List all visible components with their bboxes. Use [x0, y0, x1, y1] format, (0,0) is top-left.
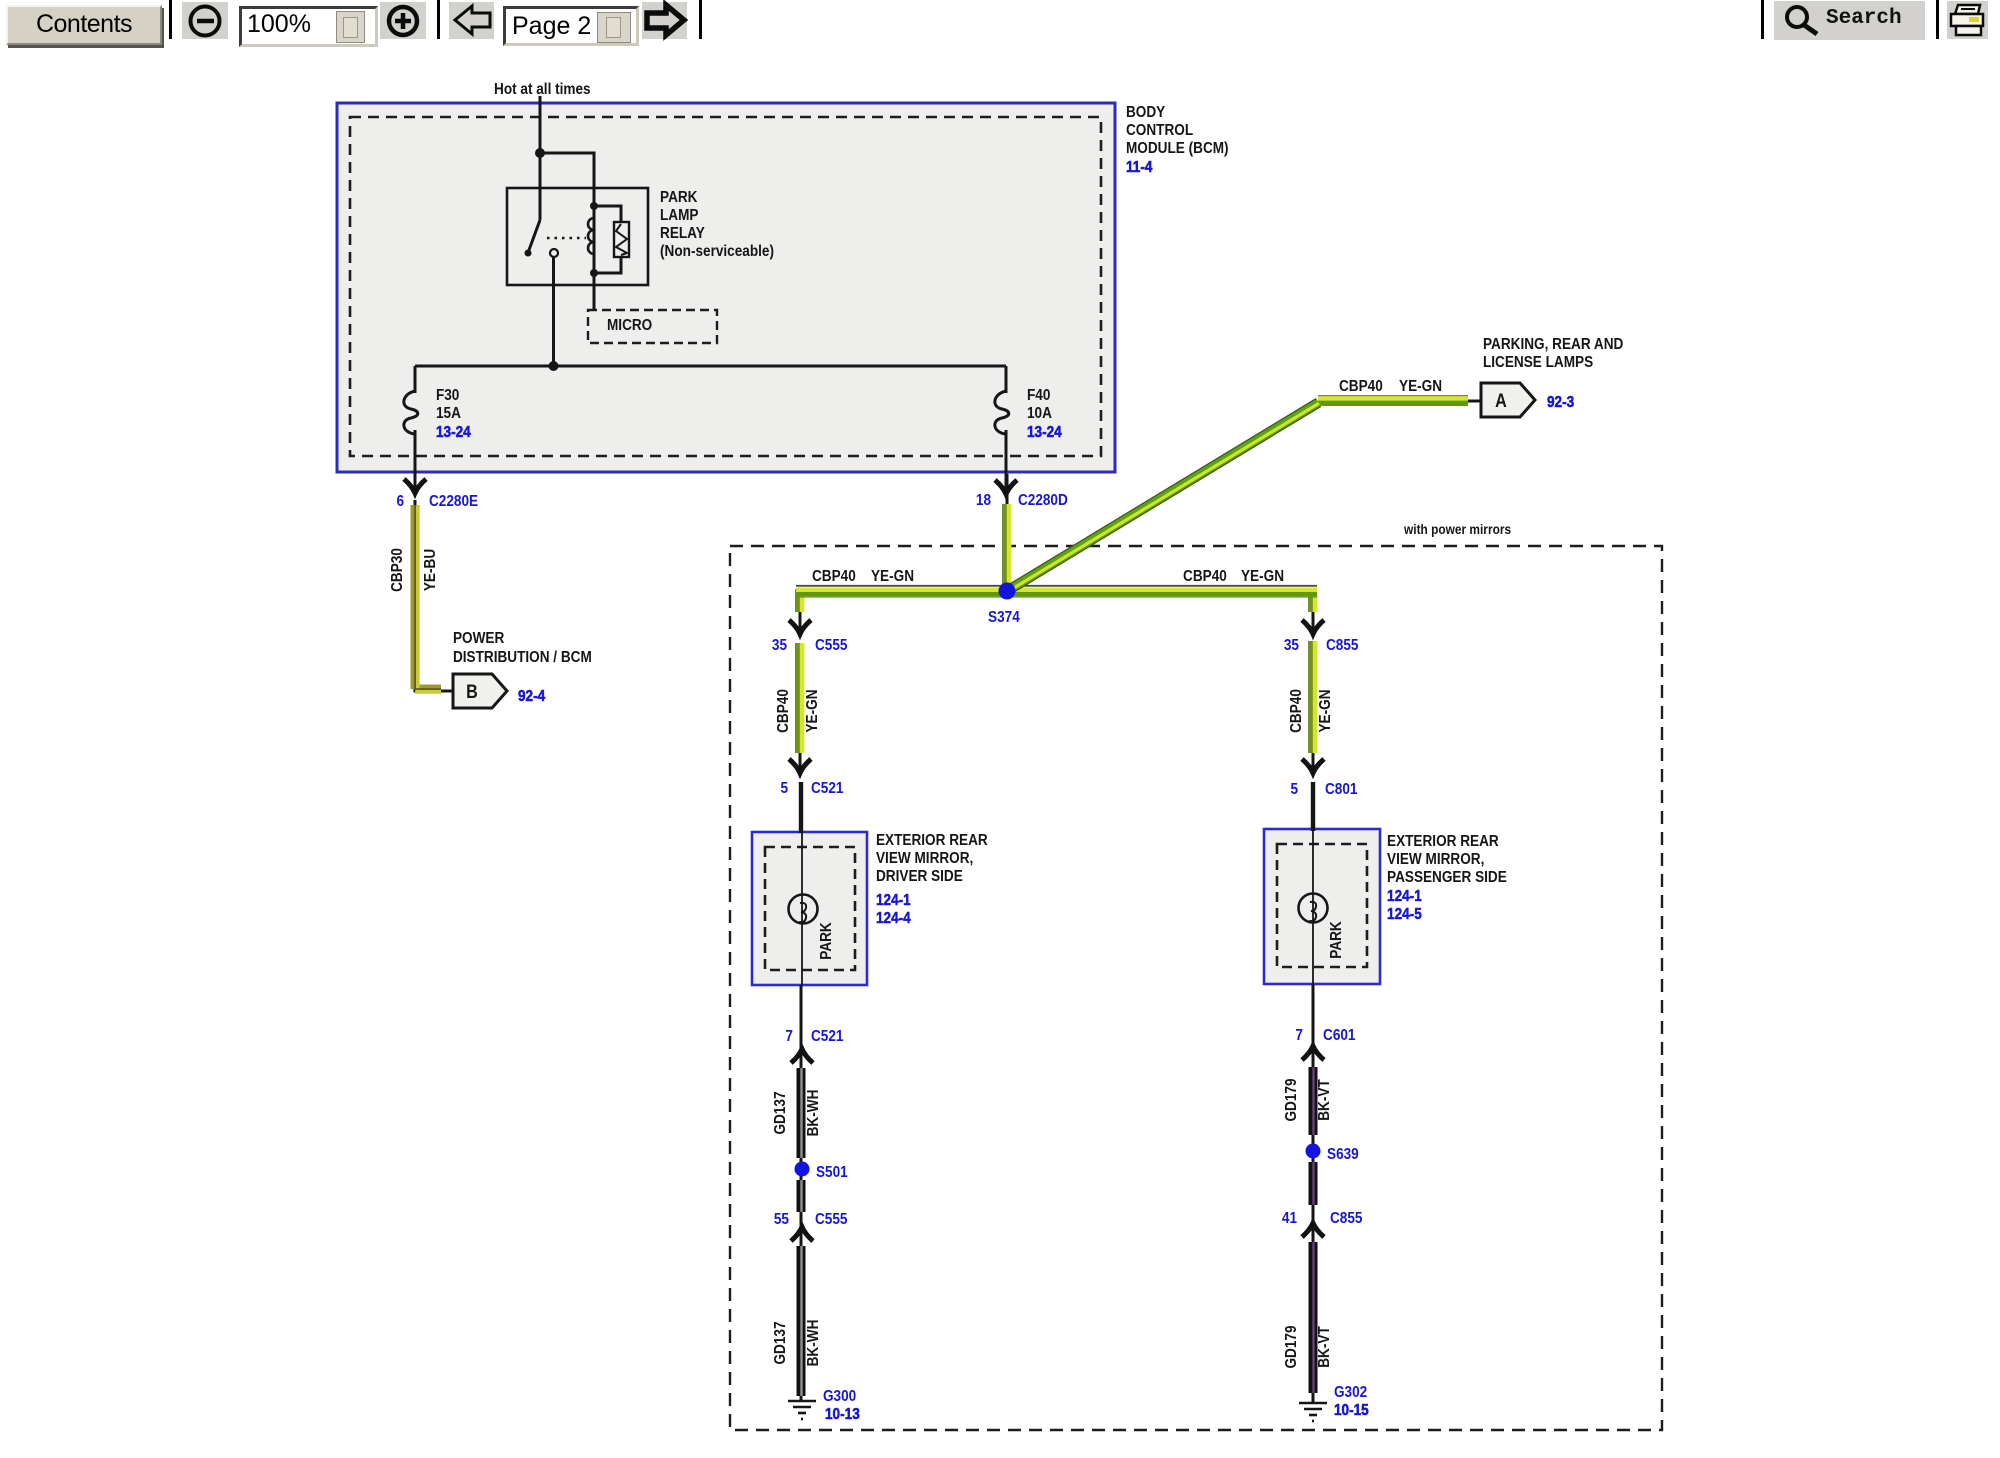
- svg-text:POWER: POWER: [453, 630, 505, 647]
- svg-text:BK-WH: BK-WH: [805, 1320, 822, 1367]
- svg-text:YE-GN: YE-GN: [1317, 689, 1334, 732]
- svg-text:CBP30: CBP30: [389, 548, 406, 592]
- svg-text:GD179: GD179: [1283, 1078, 1300, 1121]
- svg-text:124-1: 124-1: [1387, 888, 1422, 905]
- svg-text:5: 5: [1290, 781, 1298, 798]
- svg-text:C801: C801: [1325, 781, 1357, 798]
- svg-text:S639: S639: [1327, 1146, 1359, 1163]
- svg-text:CBP40: CBP40: [1339, 378, 1383, 395]
- svg-text:35: 35: [1284, 637, 1299, 654]
- svg-text:PARK: PARK: [1328, 921, 1345, 959]
- svg-text:with power mirrors: with power mirrors: [1403, 521, 1511, 537]
- svg-text:15A: 15A: [436, 405, 461, 422]
- svg-text:10A: 10A: [1027, 405, 1052, 422]
- svg-text:C521: C521: [811, 1028, 843, 1045]
- svg-text:7: 7: [1295, 1027, 1303, 1044]
- svg-text:A: A: [1495, 390, 1507, 412]
- svg-text:B: B: [466, 681, 478, 703]
- svg-text:BODY: BODY: [1126, 104, 1165, 121]
- svg-text:VIEW MIRROR,: VIEW MIRROR,: [1387, 851, 1484, 868]
- svg-text:C555: C555: [815, 637, 847, 654]
- svg-text:55: 55: [774, 1211, 789, 1228]
- svg-text:C855: C855: [1330, 1210, 1362, 1227]
- svg-text:CBP40: CBP40: [812, 568, 856, 585]
- svg-text:92-4: 92-4: [518, 688, 546, 705]
- svg-text:5: 5: [780, 780, 788, 797]
- svg-text:LAMP: LAMP: [660, 207, 699, 224]
- svg-text:MODULE (BCM): MODULE (BCM): [1126, 140, 1229, 157]
- svg-text:DISTRIBUTION / BCM: DISTRIBUTION / BCM: [453, 649, 592, 666]
- svg-text:41: 41: [1282, 1210, 1297, 1227]
- svg-text:CBP40: CBP40: [775, 689, 792, 733]
- svg-text:13-24: 13-24: [436, 424, 471, 441]
- svg-text:PARK: PARK: [660, 189, 698, 206]
- svg-text:CBP40: CBP40: [1288, 689, 1305, 733]
- svg-text:C555: C555: [815, 1211, 847, 1228]
- svg-text:10-13: 10-13: [825, 1406, 860, 1423]
- svg-text:13-24: 13-24: [1027, 424, 1062, 441]
- svg-text:GD137: GD137: [772, 1321, 789, 1364]
- svg-text:GD137: GD137: [772, 1091, 789, 1134]
- svg-text:YE-GN: YE-GN: [1241, 568, 1284, 585]
- svg-text:7: 7: [785, 1028, 793, 1045]
- svg-text:YE-GN: YE-GN: [871, 568, 914, 585]
- svg-text:PASSENGER SIDE: PASSENGER SIDE: [1387, 869, 1507, 886]
- svg-text:124-1: 124-1: [876, 892, 911, 909]
- svg-text:CONTROL: CONTROL: [1126, 122, 1193, 139]
- svg-text:G300: G300: [823, 1388, 856, 1405]
- svg-text:C601: C601: [1323, 1027, 1355, 1044]
- svg-text:EXTERIOR REAR: EXTERIOR REAR: [876, 832, 988, 849]
- svg-text:BK-WH: BK-WH: [805, 1090, 822, 1137]
- svg-text:92-3: 92-3: [1547, 394, 1574, 411]
- svg-text:F30: F30: [436, 387, 459, 404]
- svg-text:10-15: 10-15: [1334, 1402, 1369, 1419]
- svg-text:YE-GN: YE-GN: [804, 689, 821, 732]
- svg-text:S374: S374: [988, 609, 1020, 626]
- svg-text:35: 35: [772, 637, 787, 654]
- svg-text:Hot at all times: Hot at all times: [494, 81, 591, 98]
- svg-text:C2280E: C2280E: [429, 493, 478, 510]
- svg-text:6: 6: [396, 493, 404, 510]
- svg-text:BK-VT: BK-VT: [1316, 1326, 1333, 1368]
- svg-text:F40: F40: [1027, 387, 1050, 404]
- svg-text:(Non-serviceable): (Non-serviceable): [660, 243, 774, 260]
- svg-text:124-5: 124-5: [1387, 906, 1422, 923]
- svg-text:G302: G302: [1334, 1384, 1367, 1401]
- svg-text:124-4: 124-4: [876, 910, 911, 927]
- svg-text:PARKING, REAR AND: PARKING, REAR AND: [1483, 336, 1624, 353]
- svg-text:DRIVER SIDE: DRIVER SIDE: [876, 868, 963, 885]
- svg-text:BK-VT: BK-VT: [1316, 1079, 1333, 1121]
- svg-text:C2280D: C2280D: [1018, 492, 1068, 509]
- svg-text:RELAY: RELAY: [660, 225, 705, 242]
- svg-text:VIEW MIRROR,: VIEW MIRROR,: [876, 850, 973, 867]
- svg-text:C855: C855: [1326, 637, 1358, 654]
- svg-text:YE-BU: YE-BU: [422, 549, 439, 591]
- svg-text:C521: C521: [811, 780, 843, 797]
- svg-text:S501: S501: [816, 1164, 848, 1181]
- svg-text:MICRO: MICRO: [607, 317, 652, 334]
- svg-text:LICENSE LAMPS: LICENSE LAMPS: [1483, 354, 1593, 371]
- svg-text:EXTERIOR REAR: EXTERIOR REAR: [1387, 833, 1499, 850]
- svg-text:11-4: 11-4: [1126, 159, 1153, 176]
- svg-text:18: 18: [976, 492, 991, 509]
- svg-text:GD179: GD179: [1283, 1325, 1300, 1368]
- svg-text:PARK: PARK: [818, 922, 835, 960]
- svg-text:CBP40: CBP40: [1183, 568, 1227, 585]
- svg-text:YE-GN: YE-GN: [1399, 378, 1442, 395]
